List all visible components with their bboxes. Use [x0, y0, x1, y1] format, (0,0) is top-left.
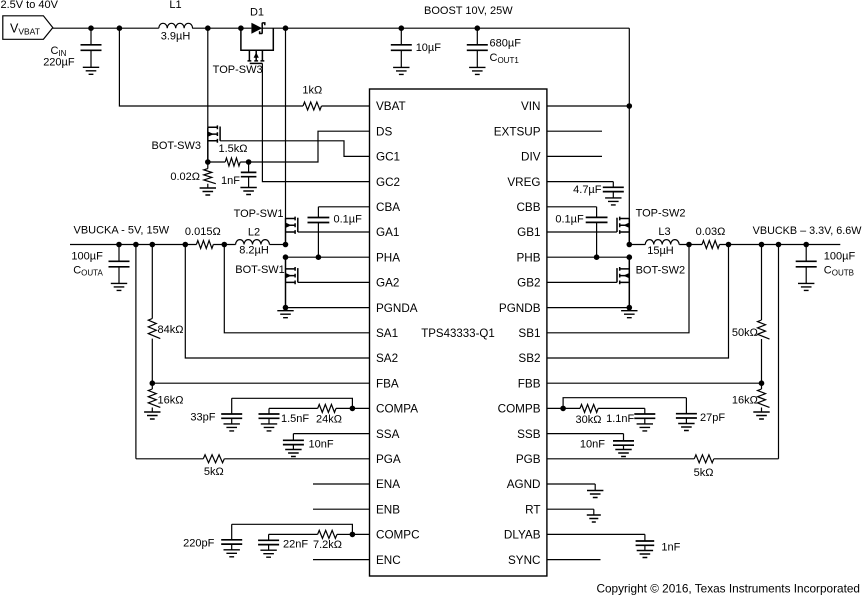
- svg-text:FBA: FBA: [376, 377, 399, 390]
- wire ENB stub: [313, 508, 370, 510]
- svg-text:PGNDA: PGNDA: [376, 302, 418, 315]
- wire boost to TOP-SW1: [285, 28, 287, 219]
- resistor 7.2k: [337, 533, 352, 535]
- svg-text:0.1µF: 0.1µF: [555, 213, 584, 225]
- wire VIN pin: [547, 105, 629, 107]
- wire ENA stub: [313, 483, 370, 485]
- svg-text:680µF: 680µF: [490, 37, 522, 49]
- wire PGB pullup: [778, 245, 780, 459]
- capacitor SSB 10nF: [547, 433, 624, 435]
- svg-text:BOT-SW3: BOT-SW3: [151, 140, 201, 152]
- svg-text:PGNDB: PGNDB: [499, 302, 541, 315]
- capacitor COUT1 680uF: [476, 28, 478, 67]
- svg-text:1kΩ: 1kΩ: [302, 85, 322, 97]
- wire COMPC branch: [232, 524, 353, 534]
- svg-text:DLYAB: DLYAB: [504, 529, 541, 542]
- wire GB1 pin: [547, 231, 617, 233]
- node VIN junction: [627, 103, 633, 109]
- wire COMPA branch: [232, 398, 353, 408]
- capacitor 220pF: [231, 524, 233, 550]
- capacitor 22nF: [268, 534, 270, 550]
- node SW-B PHB junction: [627, 254, 633, 260]
- wire PHA pin: [286, 256, 370, 258]
- node PGNDB junction: [627, 305, 633, 311]
- svg-text:5kΩ: 5kΩ: [694, 467, 714, 479]
- ground AGND: [547, 483, 595, 485]
- wire SB1: [547, 245, 689, 333]
- resistor 5k B: [547, 458, 694, 460]
- node COUTB junction: [803, 242, 809, 248]
- svg-text:15µH: 15µH: [647, 245, 674, 257]
- wire DS to sense: [249, 131, 370, 162]
- svg-text:SSA: SSA: [376, 428, 400, 441]
- capacitor DLYAB 1nF: [547, 533, 645, 535]
- svg-text:PHB: PHB: [516, 251, 540, 264]
- svg-text:100µF: 100µF: [824, 250, 856, 262]
- wire L2 to SW: [270, 244, 286, 246]
- diode D1: [251, 23, 262, 34]
- node junction VBAT-tap: [117, 25, 123, 31]
- wire GC1 to BOT-SW3 gate: [220, 141, 369, 157]
- svg-text:24kΩ: 24kΩ: [316, 414, 342, 426]
- wire COMPA pin: [352, 407, 369, 409]
- node PHA cap junction: [316, 254, 322, 260]
- node PGA junction: [133, 242, 139, 248]
- svg-text:VIN: VIN: [521, 100, 540, 113]
- svg-text:BOT-SW1: BOT-SW1: [235, 264, 285, 276]
- inductor L2 8.2uH: [236, 240, 270, 245]
- node TOP-SW1 feed junction: [283, 25, 289, 31]
- svg-text:BOOST 10V, 25W: BOOST 10V, 25W: [424, 5, 513, 17]
- svg-text:GA1: GA1: [376, 226, 399, 239]
- svg-text:1nF: 1nF: [661, 542, 680, 554]
- capacitor COUTB 100uF: [805, 245, 807, 284]
- resistor 1k: [303, 102, 321, 110]
- capacitor COUTA 100uF: [118, 245, 120, 284]
- wire PHB pin: [547, 256, 629, 258]
- svg-text:PGB: PGB: [516, 453, 541, 466]
- wire GA2 pin: [298, 281, 370, 283]
- resistor 16k A: [151, 383, 153, 412]
- node COMPA junction: [350, 406, 356, 412]
- node 50k junction: [759, 242, 765, 248]
- ground PGNDB: [628, 308, 630, 311]
- node SA1 junction: [222, 242, 228, 248]
- capacitor 33pF: [231, 398, 233, 424]
- svg-text:GB1: GB1: [517, 226, 540, 239]
- wire SYNC stub: [547, 559, 601, 561]
- transistor TOP-SW2: [628, 218, 630, 244]
- svg-text:50kΩ: 50kΩ: [732, 327, 758, 339]
- capacitor CBA 0.1uF: [318, 206, 369, 208]
- svg-text:GC1: GC1: [376, 151, 400, 164]
- svg-text:1.1nF: 1.1nF: [606, 413, 634, 425]
- svg-text:8.2µH: 8.2µH: [239, 245, 269, 257]
- capacitor 1.1nF: [644, 408, 646, 424]
- wire VBAT input rail: [53, 27, 159, 29]
- svg-text:2.5V to 40V: 2.5V to 40V: [1, 0, 59, 11]
- svg-text:COUTB: COUTB: [824, 265, 854, 278]
- svg-text:TOP-SW2: TOP-SW2: [636, 208, 686, 220]
- wire FBA pin: [152, 382, 369, 384]
- wire VBAT pin: [119, 28, 303, 106]
- capacitor VREG 4.7uF: [547, 181, 613, 183]
- node COMPB junction: [560, 406, 566, 412]
- svg-text:ENA: ENA: [376, 478, 400, 491]
- svg-text:4.7µF: 4.7µF: [573, 184, 602, 196]
- svg-text:SA1: SA1: [376, 327, 398, 340]
- node SW-B L3 junction: [627, 242, 633, 248]
- svg-text:SB1: SB1: [518, 327, 540, 340]
- node COMPC junction: [350, 532, 356, 538]
- node 10uF junction: [399, 25, 405, 31]
- wire VBUCKB rail: [720, 244, 841, 246]
- transistor TOP-SW1: [285, 218, 287, 244]
- resistor 16k B: [761, 383, 763, 412]
- svg-text:COUT1: COUT1: [490, 52, 520, 65]
- svg-text:30kΩ: 30kΩ: [576, 414, 602, 426]
- svg-text:1.5kΩ: 1.5kΩ: [219, 143, 248, 155]
- svg-text:0.03Ω: 0.03Ω: [696, 226, 726, 238]
- svg-text:PGA: PGA: [376, 453, 401, 466]
- svg-text:SYNC: SYNC: [508, 554, 540, 567]
- resistor 0.02: [207, 162, 209, 188]
- svg-text:L3: L3: [658, 226, 670, 238]
- svg-text:GA2: GA2: [376, 277, 399, 290]
- svg-text:3.9µH: 3.9µH: [161, 31, 191, 43]
- svg-text:5kΩ: 5kΩ: [204, 466, 224, 478]
- svg-text:VREG: VREG: [507, 176, 540, 189]
- resistor 30k: [563, 407, 580, 409]
- svg-text:1nF: 1nF: [221, 175, 240, 187]
- node PGB junction: [776, 242, 782, 248]
- resistor 0.03: [702, 241, 720, 249]
- svg-text:16kΩ: 16kΩ: [158, 394, 184, 406]
- wire L3 to sense: [679, 244, 702, 246]
- wire ENC stub: [313, 559, 370, 561]
- svg-text:ENB: ENB: [376, 503, 400, 516]
- transistor BOT-SW2: [628, 257, 630, 307]
- capacitor 10uF: [400, 28, 402, 67]
- capacitor CBB 0.1uF: [547, 206, 597, 208]
- wire boost SW down: [207, 28, 209, 127]
- wire SB2: [547, 245, 729, 359]
- svg-text:GB2: GB2: [517, 277, 540, 290]
- wire L1 to D1: [192, 27, 251, 29]
- svg-text:1.5nF: 1.5nF: [281, 413, 309, 425]
- wire GC2 to TOP-SW3 gate: [262, 63, 369, 181]
- transistor BOT-SW1: [285, 257, 287, 307]
- wire PGA pullup: [135, 245, 137, 459]
- wire PGNDB pin: [547, 307, 629, 309]
- transistor BOT-SW3: [207, 127, 209, 162]
- svg-text:22nF: 22nF: [283, 539, 308, 551]
- svg-text:DIV: DIV: [521, 151, 541, 164]
- svg-text:L1: L1: [169, 0, 181, 11]
- svg-text:L2: L2: [248, 226, 260, 238]
- svg-text:BOT-SW2: BOT-SW2: [636, 264, 686, 276]
- wire boost to VIN: [628, 28, 630, 106]
- wire SA1: [224, 245, 369, 333]
- svg-text:ENC: ENC: [376, 554, 401, 567]
- node FBA junction: [150, 380, 156, 386]
- svg-text:D1: D1: [250, 7, 264, 19]
- svg-text:7.2kΩ: 7.2kΩ: [313, 539, 342, 551]
- svg-text:PHA: PHA: [376, 251, 400, 264]
- transistor TOP-SW3: [241, 28, 273, 50]
- svg-text:AGND: AGND: [507, 478, 541, 491]
- wire COMPC pin: [352, 533, 369, 535]
- svg-text:84kΩ: 84kΩ: [158, 324, 184, 336]
- svg-text:0.02Ω: 0.02Ω: [170, 171, 200, 183]
- svg-text:0.1µF: 0.1µF: [334, 213, 363, 225]
- wire VBUCKA rail: [70, 244, 196, 246]
- op-amp U1 TPS43333-Q1 box: [370, 89, 547, 576]
- svg-text:TOP-SW3: TOP-SW3: [213, 64, 263, 76]
- node COUTA junction: [116, 242, 122, 248]
- wire SA2: [185, 245, 369, 359]
- node PHB cap junction: [594, 254, 600, 260]
- svg-text:FBB: FBB: [518, 377, 541, 390]
- wire GA1 pin: [298, 231, 370, 233]
- node 680uF junction: [475, 25, 481, 31]
- svg-text:CBA: CBA: [376, 201, 400, 214]
- node FB divider junction: [150, 242, 156, 248]
- svg-text:COMPA: COMPA: [376, 403, 418, 416]
- svg-text:0.015Ω: 0.015Ω: [185, 226, 221, 238]
- node junction CIN: [88, 25, 94, 31]
- svg-text:CBB: CBB: [516, 201, 540, 214]
- inductor L3 15uH: [645, 240, 679, 245]
- resistor 5k A: [224, 458, 369, 460]
- wire boost output rail: [262, 27, 629, 29]
- node D1 anode junction: [238, 25, 244, 31]
- wire PGNDA pin: [286, 307, 370, 309]
- resistor 50k: [761, 245, 763, 384]
- svg-text:COMPB: COMPB: [498, 403, 541, 416]
- svg-text:COUTA: COUTA: [73, 265, 103, 278]
- resistor 0.015: [196, 241, 213, 249]
- svg-text:220pF: 220pF: [183, 538, 214, 550]
- capacitor 1.5nF: [268, 408, 270, 424]
- node PGNDA junction: [283, 305, 289, 311]
- svg-text:COMPC: COMPC: [376, 529, 420, 542]
- svg-text:10nF: 10nF: [580, 438, 605, 450]
- capacitor CIN 220uF: [90, 28, 92, 67]
- resistor 24k: [336, 407, 352, 409]
- wire SW-B to L3: [629, 244, 645, 246]
- svg-text:220µF: 220µF: [43, 56, 75, 68]
- svg-text:Copyright © 2016, Texas Instru: Copyright © 2016, Texas Instruments Inco…: [596, 582, 860, 596]
- svg-text:16kΩ: 16kΩ: [732, 394, 758, 406]
- node SW-A PHA junction: [283, 254, 289, 260]
- svg-text:27pF: 27pF: [700, 412, 725, 424]
- wire VIN to TOP-SW2: [628, 106, 630, 219]
- node SA2 junction: [183, 242, 189, 248]
- node boost SW junction: [205, 25, 211, 31]
- capacitor 1nF boost: [248, 162, 250, 188]
- node SB1 junction: [686, 242, 692, 248]
- svg-text:TPS43333-Q1: TPS43333-Q1: [421, 328, 495, 340]
- svg-text:VBUCKB – 3.3V, 6.6W: VBUCKB – 3.3V, 6.6W: [753, 225, 862, 237]
- capacitor SSA 10nF: [293, 433, 369, 435]
- svg-text:10µF: 10µF: [416, 42, 442, 54]
- node SW-A L2 junction: [283, 242, 289, 248]
- svg-text:33pF: 33pF: [190, 412, 215, 424]
- wire EXTSUP stub: [547, 130, 602, 132]
- wire GB2 pin: [547, 281, 617, 283]
- svg-text:EXTSUP: EXTSUP: [494, 125, 541, 138]
- svg-text:RT: RT: [525, 503, 540, 516]
- svg-text:SSB: SSB: [517, 428, 541, 441]
- wire COMPB branch: [563, 398, 686, 409]
- inductor L1 3.9uH: [159, 23, 193, 28]
- ground RT: [547, 508, 594, 510]
- resistor 84k: [151, 245, 153, 384]
- svg-text:DS: DS: [376, 125, 392, 138]
- node FBB junction: [759, 380, 765, 386]
- svg-text:100µF: 100µF: [71, 250, 103, 262]
- wire COMPB pin: [547, 407, 563, 409]
- node VVBAT input flag: [3, 16, 53, 40]
- node DS sense junction: [246, 159, 252, 165]
- capacitor 27pF: [685, 398, 687, 424]
- svg-text:TOP-SW1: TOP-SW1: [234, 208, 284, 220]
- svg-text:10nF: 10nF: [309, 438, 334, 450]
- svg-text:GC2: GC2: [376, 176, 400, 189]
- svg-text:SA2: SA2: [376, 352, 398, 365]
- svg-text:VBAT: VBAT: [376, 100, 406, 113]
- node SB2 junction: [726, 242, 732, 248]
- node BOT-SW3 source junction: [205, 159, 211, 165]
- resistor 1.5k: [208, 161, 225, 163]
- wire DIV stub: [547, 155, 602, 157]
- svg-text:VBUCKA - 5V, 15W: VBUCKA - 5V, 15W: [74, 225, 170, 237]
- wire FBB pin: [547, 382, 762, 384]
- ground PGNDA: [285, 308, 287, 311]
- svg-text:VVBAT: VVBAT: [10, 22, 40, 37]
- svg-text:SB2: SB2: [518, 352, 540, 365]
